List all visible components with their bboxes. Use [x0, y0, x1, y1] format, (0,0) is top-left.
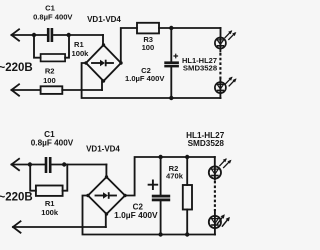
bridge rectifier VD1-VD4 (diamond): [86, 45, 121, 81]
node dot C2 top (bottom ckt): [158, 155, 162, 159]
svg-text:SMD3528: SMD3528: [188, 139, 225, 148]
svg-text:~220B: ~220B: [0, 191, 33, 203]
node dot R2 top (bottom ckt): [185, 155, 189, 159]
wire: DC- return: [82, 63, 221, 98]
wire: R2 branch (bottom ckt): [186, 157, 188, 185]
wire: R1 parallel loop: [34, 35, 69, 58]
wire: bottom AC rail: [12, 89, 41, 91]
resistor R3: [137, 23, 159, 34]
wire: LED column top: [220, 28, 222, 38]
arrow AC input (bottom ckt top line): [12, 159, 20, 170]
capacitor C2 (bottom ckt electrolytic): [152, 195, 170, 202]
svg-text:R2: R2: [45, 67, 55, 76]
LED HL27 arrows: [225, 77, 236, 86]
svg-text:SMD3528: SMD3528: [183, 63, 218, 72]
wire: bottom AC rail (bottom ckt): [13, 226, 106, 228]
diode symbol inside bridge: [92, 62, 100, 64]
bridge rectifier VD1-VD4 (bottom ckt): [88, 177, 125, 214]
LED HL1 (bottom ckt): [209, 166, 221, 178]
wire: top AC rail: [12, 34, 48, 36]
svg-text:1.0µF 400V: 1.0µF 400V: [114, 210, 158, 220]
svg-text:100: 100: [43, 76, 56, 85]
svg-text:0.8µF 400V: 0.8µF 400V: [33, 12, 73, 21]
wire: LED column (bottom ckt): [214, 157, 216, 167]
wire: C2 branch: [170, 28, 172, 62]
arrow AC input top line: [12, 29, 20, 40]
capacitor C1 (bottom ckt): [45, 157, 52, 173]
plus sign C2 (bottom ckt): [149, 180, 158, 189]
svg-text:100k: 100k: [72, 49, 90, 58]
diode symbol (bottom bridge): [96, 195, 104, 197]
node dot left of C1: [32, 33, 36, 37]
svg-text:100: 100: [142, 43, 155, 52]
resistor R2 (bottom ckt, vertical): [183, 185, 192, 210]
arrow AC input (bottom ckt bottom line): [13, 221, 21, 232]
wire: C2 branch (bottom ckt): [160, 157, 162, 195]
node dots on DC- rail: [158, 232, 162, 236]
svg-text:VD1-VD4: VD1-VD4: [87, 15, 121, 24]
LED HL27 (top circuit lower): [215, 82, 226, 93]
svg-text:VD1-VD4: VD1-VD4: [86, 145, 120, 154]
capacitor C2 (electrolytic): [164, 61, 179, 67]
node dot right of C1: [67, 33, 71, 37]
node dot C2 bottom: [169, 96, 173, 100]
resistor R1 (bottom ckt): [36, 186, 63, 196]
LED HL1 (top): [215, 38, 226, 49]
arrow AC input bottom line: [12, 84, 20, 95]
wire: top AC rail (bottom ckt): [12, 164, 45, 166]
wire: LED bottom to DC-: [219, 93, 221, 98]
LED arrows (bottom ckt upper): [220, 158, 232, 167]
svg-text:0.8µF 400V: 0.8µF 400V: [31, 138, 74, 147]
svg-text:1.0µF 400V: 1.0µF 400V: [125, 74, 165, 83]
resistor R2: [41, 86, 63, 94]
wire: DC+ rail (bottom ckt): [125, 157, 215, 196]
wire: R1 parallel loop (bottom ckt): [30, 165, 67, 191]
svg-text:100k: 100k: [41, 208, 59, 217]
svg-text:470k: 470k: [166, 171, 184, 180]
bridge corner dots: [84, 43, 122, 82]
wire: dashed LED string (bottom ckt): [214, 178, 216, 179]
capacitor C1: [47, 28, 53, 42]
node dot C2 top: [169, 26, 173, 30]
node dots (bottom ckt C1): [28, 162, 32, 166]
svg-text:R1: R1: [74, 40, 84, 49]
wire: LED bottom to DC- (bottom ckt): [214, 228, 216, 235]
wire: DC+ riser and top rail: [121, 28, 137, 63]
resistor R1: [41, 54, 66, 61]
wire: dashed LED string: [219, 49, 221, 52]
LED arrows (bottom ckt lower): [217, 214, 230, 226]
svg-text:~220B: ~220B: [0, 62, 33, 74]
svg-text:R1: R1: [45, 199, 55, 208]
LED HL1 arrows: [225, 30, 236, 39]
svg-text:C1: C1: [45, 3, 55, 12]
wire: DC- return (bottom ckt): [83, 196, 216, 235]
LED HL27 (bottom ckt): [209, 216, 221, 228]
plus sign C2: [174, 54, 178, 58]
